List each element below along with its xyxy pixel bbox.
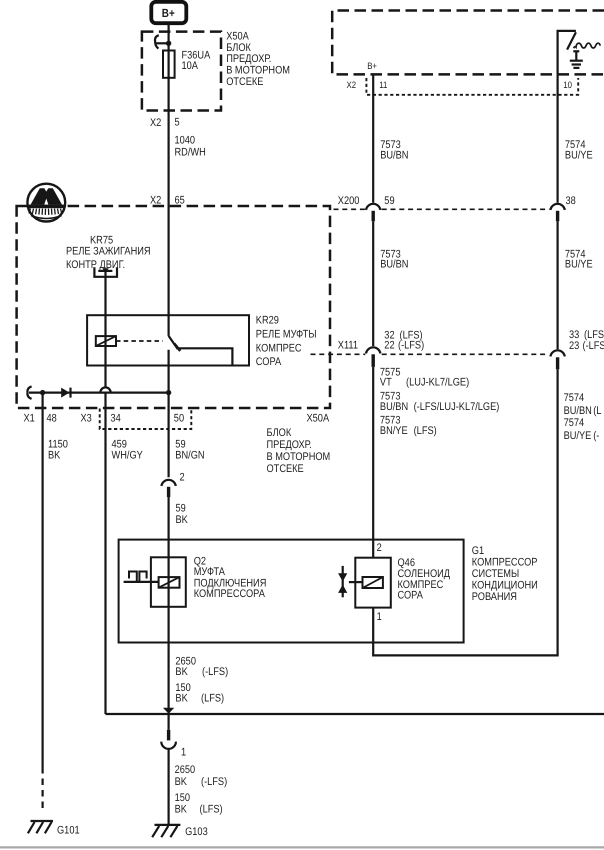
svg-text:(LUJ-KL7/LGE): (LUJ-KL7/LGE) (406, 376, 469, 388)
svg-text:X3: X3 (81, 412, 92, 424)
pin X3-34 (81, 412, 121, 424)
ground G103 (152, 825, 208, 838)
svg-text:BU/BN: BU/BN (380, 401, 408, 413)
label X50A at relay box bottom (267, 413, 331, 475)
solenoid Q46 coil (363, 577, 383, 588)
node junction switched output and ground link (166, 390, 171, 395)
svg-text:59: 59 (175, 438, 185, 450)
svg-text:RD/WH: RD/WH (175, 147, 206, 159)
label X50A fuse box (226, 30, 290, 88)
svg-text:X2: X2 (150, 117, 161, 129)
svg-text:В МОТОРНОМ: В МОТОРНОМ (267, 451, 331, 463)
svg-text:ОТСЕКЕ: ОТСЕКЕ (226, 76, 263, 88)
solenoid Q46 outer box (355, 558, 391, 608)
svg-text:1040: 1040 (175, 135, 196, 147)
svg-text:(-LFS): (-LFS) (583, 340, 604, 352)
pin box X3 dotted (100, 409, 192, 430)
clutch Q2 mechanical symbol (124, 572, 159, 582)
svg-text:РОВАНИЯ: РОВАНИЯ (472, 591, 517, 603)
connector 2 in-line on W1 (161, 472, 184, 497)
diode in ground link (61, 388, 70, 398)
svg-text:X111: X111 (338, 339, 358, 351)
connector X200 label (338, 195, 360, 207)
svg-text:КОМПРЕССОР: КОМПРЕССОР (472, 557, 538, 569)
svg-text:BU/YE: BU/YE (564, 430, 592, 442)
svg-text:X2: X2 (347, 80, 357, 90)
svg-text:BK: BK (48, 450, 61, 462)
svg-text:БЛОК: БЛОК (226, 42, 251, 54)
pin labels 32 LFS / 22 -LFS at X111 left (384, 330, 424, 352)
svg-text:BK: BK (175, 693, 188, 705)
compressor assembly G1 box (119, 540, 464, 643)
svg-text:X1: X1 (24, 412, 35, 424)
svg-text:BK: BK (176, 514, 189, 526)
svg-text:(-LFS): (-LFS) (202, 666, 228, 678)
svg-text:BK: BK (175, 776, 188, 788)
svg-text:22: 22 (384, 339, 394, 351)
bus hook tap inside fuse box (155, 35, 169, 48)
svg-text:ПРЕДОХР.: ПРЕДОХР. (226, 53, 271, 65)
svg-text:BK: BK (175, 666, 188, 678)
svg-text:23: 23 (569, 340, 579, 352)
svg-text:59: 59 (384, 195, 394, 207)
svg-text:(LFS): (LFS) (201, 693, 224, 705)
svg-text:10: 10 (563, 80, 572, 90)
svg-text:10A: 10A (182, 60, 199, 72)
svg-text:КОМПРЕС: КОМПРЕС (256, 342, 302, 354)
svg-text:РЕЛЕ МУФТЫ: РЕЛЕ МУФТЫ (256, 328, 317, 340)
svg-text:G1: G1 (472, 545, 484, 557)
svg-text:G103: G103 (185, 826, 208, 838)
wire W1 below bus to connector 1 (168, 714, 170, 730)
svg-text:(LFS): (LFS) (414, 425, 437, 437)
junction arrow onto ground bus (163, 708, 174, 714)
pin 1 Q46 (377, 611, 382, 623)
connector X111 dashed link (311, 353, 549, 355)
wire label 459 WH/GY (112, 438, 144, 461)
clutch Q2 outer box (151, 557, 186, 607)
svg-text:СОРА: СОРА (398, 590, 424, 602)
svg-text:В МОТОРНОМ: В МОТОРНОМ (226, 65, 290, 77)
wire labels 7574 BU/BN / 7574 BU/YE below X111 right (564, 392, 602, 442)
fuse F36UA 10A (163, 50, 211, 78)
svg-text:1: 1 (181, 747, 186, 759)
svg-text:7574: 7574 (564, 392, 585, 404)
wire 7573 BU/BN upper segment W4 (372, 74, 374, 202)
svg-text:СОРА: СОРА (256, 356, 282, 368)
page frame bottom line (0, 846, 604, 848)
pin 59 at X200 (384, 195, 394, 207)
svg-text:B+: B+ (162, 6, 175, 20)
label Q46 solenoid (398, 557, 451, 601)
svg-text:СИСТЕМЫ: СИСТЕМЫ (472, 568, 519, 580)
valve symbol at Q46 (338, 566, 363, 597)
clutch Q2 coil (159, 577, 180, 588)
svg-text:(-LFS): (-LFS) (398, 339, 424, 351)
svg-text:КОНДИЦИОНИ: КОНДИЦИОНИ (472, 580, 538, 592)
svg-text:BU/YE: BU/YE (565, 149, 593, 161)
node junction at fuse feed (166, 41, 171, 46)
ECM dashed enclosure top right (332, 11, 604, 75)
wire W1 switched output down from KR29 (168, 350, 170, 478)
ECM driver element squiggle (574, 43, 601, 48)
connector X200 dashed link (334, 208, 550, 210)
svg-text:BU/BN: BU/BN (380, 258, 408, 270)
wire 7573 BU/BN mid segment W4 (372, 221, 374, 346)
svg-text:(-LFS): (-LFS) (201, 776, 227, 788)
wire ground link horizontal with diode (27, 386, 168, 398)
svg-text:X200: X200 (338, 195, 360, 207)
wire main feed W1 from B+ through fuse to relay (168, 23, 170, 336)
ECM internal ground (570, 51, 583, 68)
wire label 7574 BU/YE top (565, 139, 593, 161)
svg-text:1150: 1150 (48, 438, 68, 450)
wire W2 coil ground lower segment (104, 393, 106, 714)
svg-text:КОМПРЕССОРА: КОМПРЕССОРА (194, 588, 266, 600)
svg-text:BN/GN: BN/GN (175, 450, 204, 462)
svg-text:BK: BK (175, 804, 188, 816)
wire 7575 VT lower segment W4 to Q46 (372, 367, 374, 558)
wire KR75 coil feed W2 (104, 272, 106, 388)
wire label 1150 BK (48, 438, 68, 461)
wire 7574 lower segment W5 return from Q46 pin 1 (373, 369, 557, 655)
svg-text:59: 59 (176, 503, 186, 515)
pin 38 at X200 (566, 195, 576, 207)
relay KR29 box (87, 315, 249, 365)
relay box X50A dashed enclosure (17, 206, 330, 408)
relay KR75 label (66, 235, 151, 272)
pin 2 Q46 (377, 542, 382, 554)
pin 10 ECM (563, 80, 572, 90)
ECM output driver switch (558, 31, 576, 75)
svg-text:ОТСЕКЕ: ОТСЕКЕ (267, 463, 304, 475)
svg-text:BU/BN: BU/BN (380, 149, 408, 161)
svg-text:KR29: KR29 (256, 315, 279, 327)
B+ battery feed terminal (151, 2, 186, 23)
svg-text:5: 5 (175, 117, 180, 129)
svg-text:(LFS): (LFS) (200, 804, 223, 816)
pin labels 33 LFS / 23 -LFS at X111 right (569, 329, 604, 352)
svg-text:50: 50 (174, 413, 184, 425)
pin X1-48 (24, 412, 57, 424)
pin X2-5 fuse box output (150, 117, 180, 129)
wire label 7574 BU/YE mid (565, 249, 593, 271)
wire label 59 BN/GN (175, 438, 204, 461)
wire W1 from connector 2 into compressor (168, 497, 170, 713)
svg-text:G101: G101 (57, 824, 80, 836)
wire label 59 BK (176, 503, 189, 526)
relay KR29 coil to contact dashed link (116, 340, 163, 342)
pin X2-11 ECM (347, 80, 388, 90)
label B+ at ECM pin 11 (367, 61, 377, 71)
wire label 2650 BK / 150 BK above bus (175, 655, 228, 704)
svg-text:38: 38 (566, 195, 576, 207)
svg-text:2: 2 (180, 472, 185, 484)
svg-text:B+: B+ (367, 61, 377, 71)
connector X200 right half (arc and pin) (550, 204, 564, 221)
wire label 1040 RD/WH (175, 135, 206, 159)
relay KR29 coil (96, 336, 116, 346)
label Q2 clutch (194, 555, 267, 599)
svg-text:ПРЕДОХР.: ПРЕДОХР. (267, 439, 312, 451)
label G1 compressor (472, 545, 538, 603)
ground bus wire (106, 713, 604, 715)
svg-text:150: 150 (175, 792, 190, 804)
svg-text:7574: 7574 (564, 417, 585, 429)
connector X111 left half (arc and pin) (366, 347, 380, 367)
wire label 7573 BU/BN top (380, 139, 408, 161)
relay KR29 contact arm (169, 336, 233, 365)
svg-text:VT: VT (380, 376, 392, 388)
fuse box X50A dashed enclosure (142, 32, 221, 111)
svg-text:459: 459 (112, 438, 127, 450)
svg-text:BN/YE: BN/YE (380, 425, 408, 437)
watermark logo on relay box corner (27, 184, 65, 222)
svg-text:X50A: X50A (226, 30, 249, 42)
svg-text:BU/YE: BU/YE (565, 258, 593, 270)
pin X2-65 relay box input (150, 195, 185, 207)
svg-text:BU/BN: BU/BN (564, 405, 592, 417)
relay KR75 contact stub symbol (94, 267, 117, 277)
wire W1 to ground G103 (168, 749, 170, 825)
svg-text:(-: (- (593, 430, 599, 442)
svg-text:X50A: X50A (307, 413, 330, 425)
connector X200 left half (arc and pin) (366, 204, 380, 221)
svg-text:WH/GY: WH/GY (112, 450, 144, 462)
wire 7574 BU/YE mid segment W5 (556, 221, 558, 349)
wire label 2650 BK / 150 BK below bus (175, 764, 228, 816)
svg-text:(-LFS/LUJ-KL7/LGE): (-LFS/LUJ-KL7/LGE) (414, 401, 500, 413)
ground G101 (28, 821, 80, 836)
svg-text:34: 34 (111, 413, 121, 425)
connector X111 label (338, 339, 358, 351)
wire labels 7575 VT / 7573 BU/BN / 7573 BN/YE below X111 (380, 367, 499, 438)
svg-text:2650: 2650 (175, 764, 196, 776)
connector X111 right half (arc and pin) (550, 350, 564, 369)
connector 1 in-line (161, 730, 186, 759)
pin 50 (174, 413, 184, 425)
svg-text:2: 2 (377, 542, 382, 554)
wire label 7573 BU/BN mid (380, 249, 408, 271)
wire hop no-connection at W2 crossing (100, 387, 110, 392)
svg-text:РЕЛЕ ЗАЖИГАНИЯ: РЕЛЕ ЗАЖИГАНИЯ (66, 245, 151, 257)
svg-text:11: 11 (379, 80, 387, 90)
ECM connector pin row dotted box (366, 78, 578, 95)
svg-text:1: 1 (377, 611, 382, 623)
wire 1150 BK W3 to ground G101 (41, 393, 43, 813)
svg-text:МУФТА: МУФТА (194, 566, 226, 578)
wire 7574 BU/YE upper segment W5 (556, 74, 558, 202)
node junction 1150 branch (40, 390, 45, 395)
svg-text:(L: (L (593, 405, 601, 417)
svg-text:48: 48 (47, 412, 57, 424)
relay KR29 label (256, 315, 317, 369)
svg-text:БЛОК: БЛОК (267, 427, 292, 439)
